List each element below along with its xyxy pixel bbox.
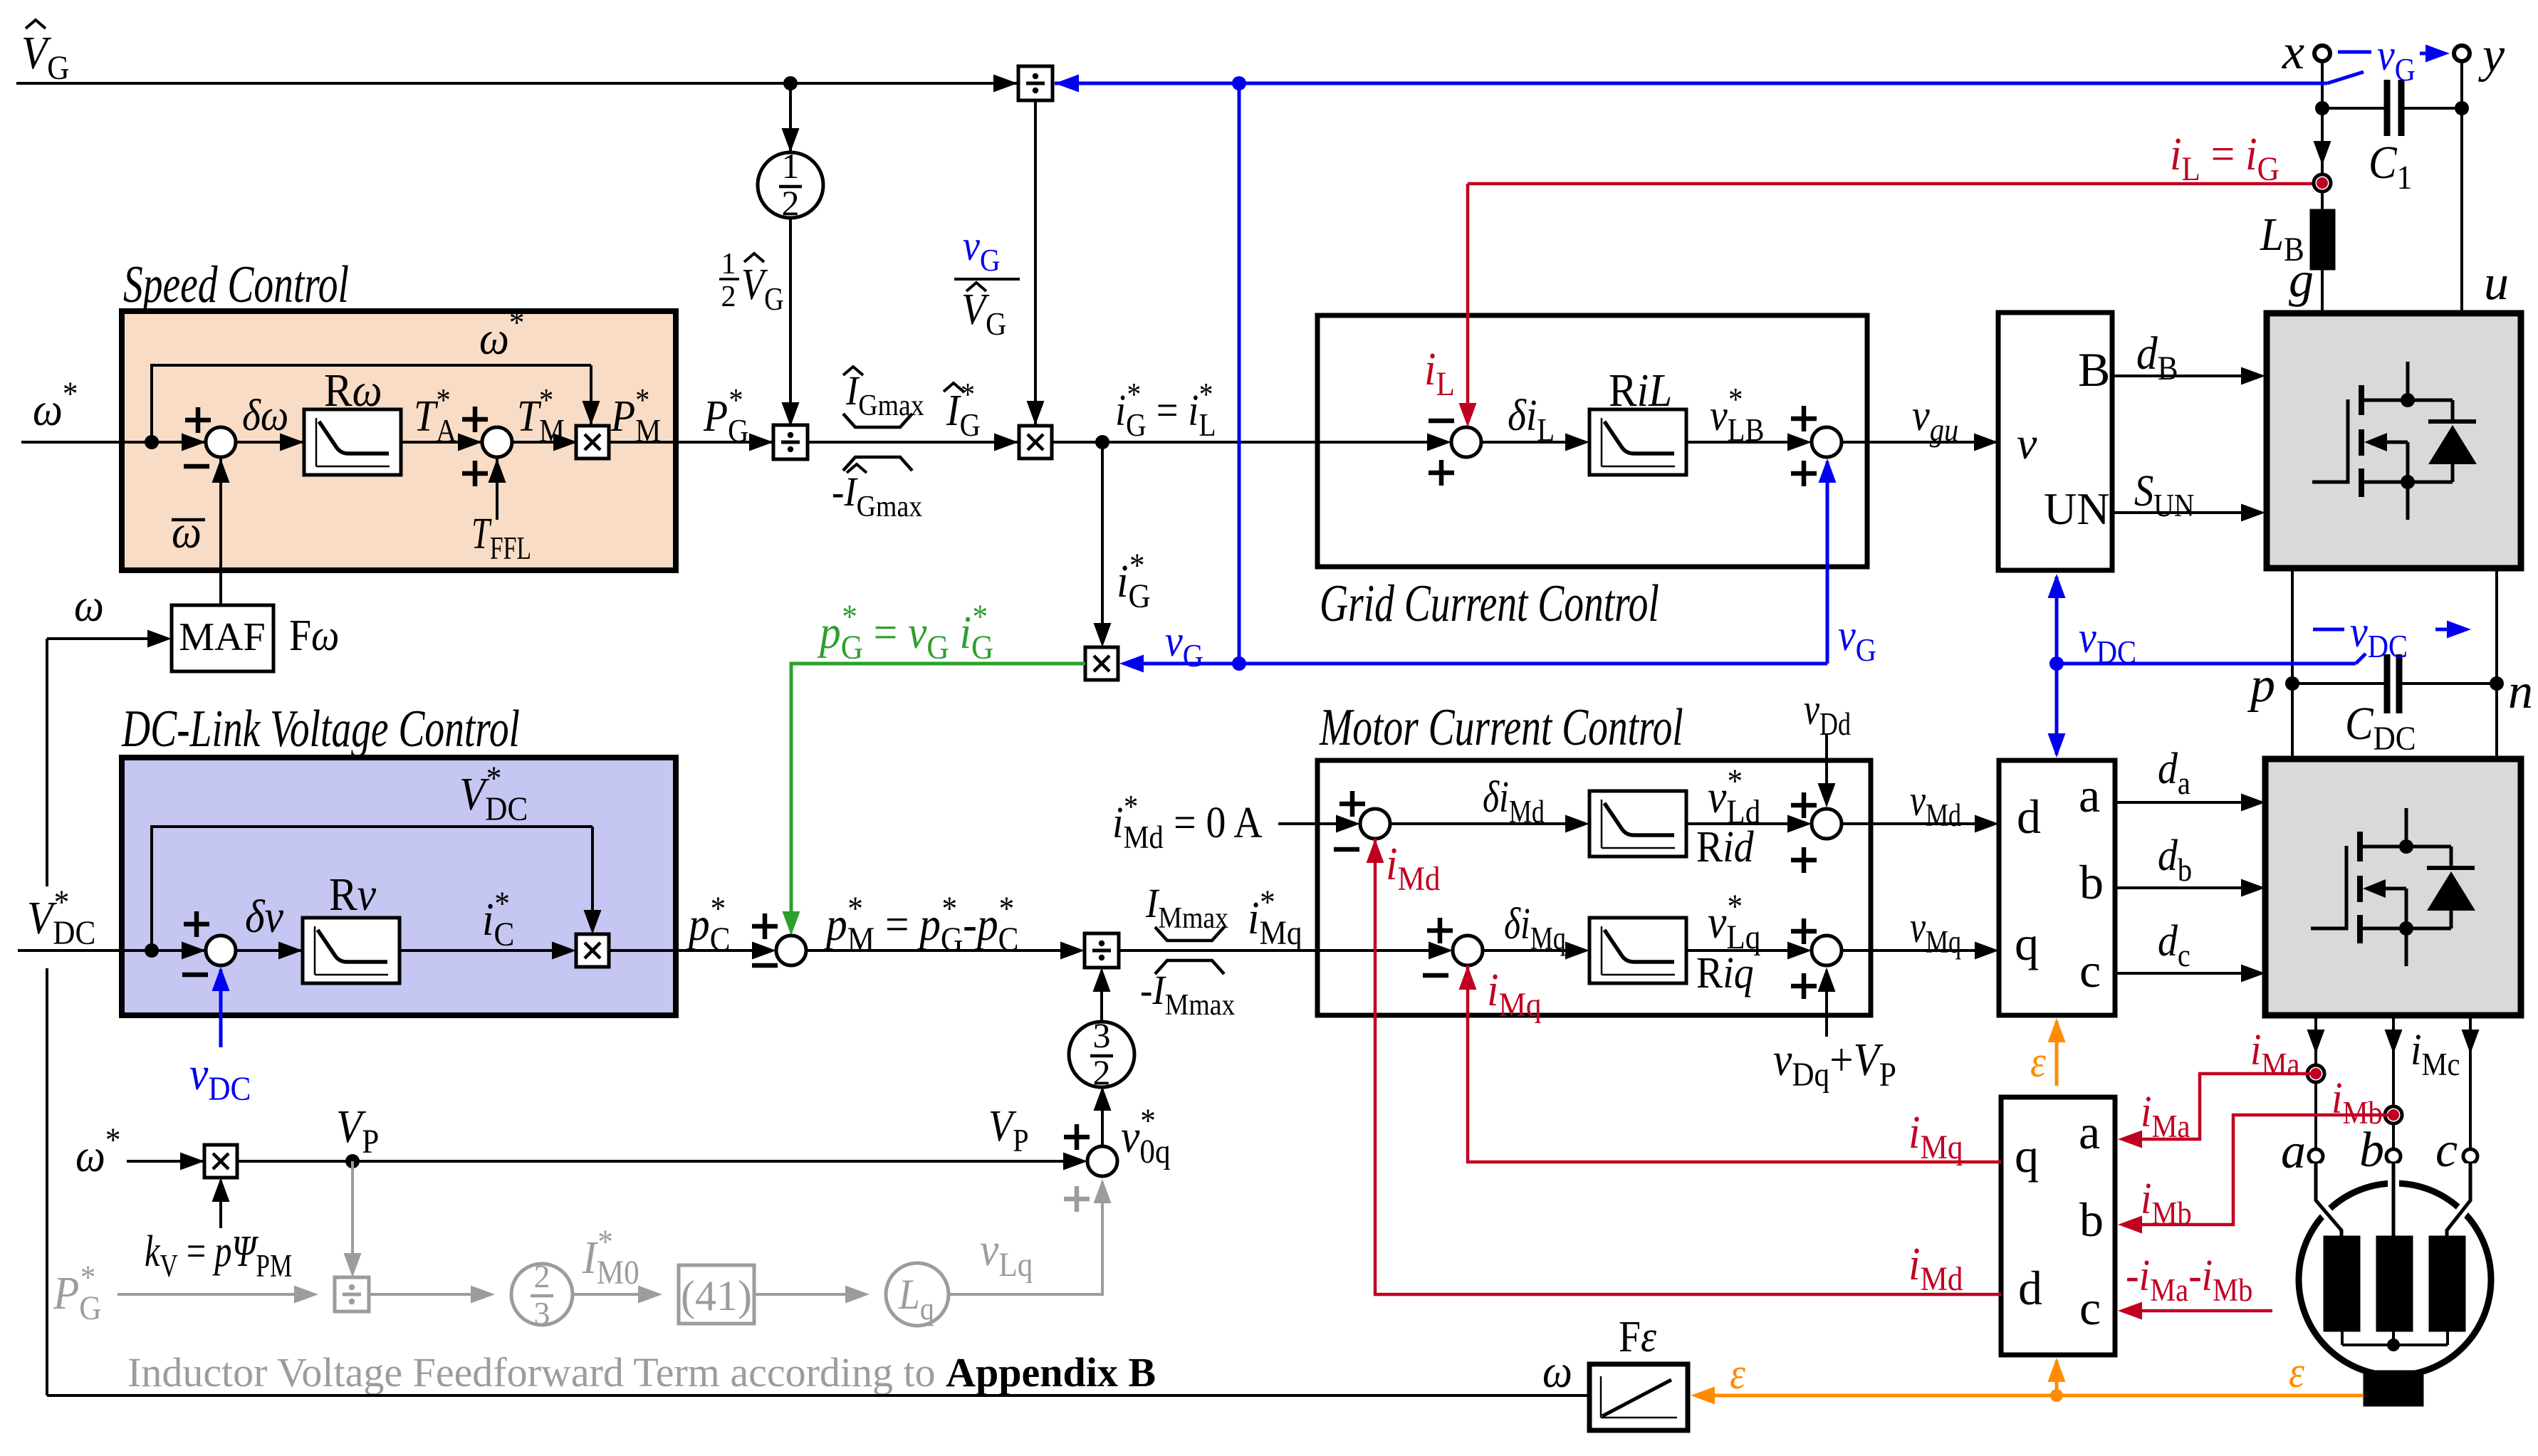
svg-text:Rω: Rω xyxy=(324,364,382,417)
svg-text:vDq+VP: vDq+VP xyxy=(1773,1033,1896,1093)
svg-text:y: y xyxy=(2478,28,2505,83)
svg-text:2: 2 xyxy=(534,1258,550,1294)
svg-text:d: d xyxy=(2017,790,2041,844)
svg-text:iG* = iL*: iG* = iL* xyxy=(1115,377,1216,444)
svg-text:b: b xyxy=(2079,855,2104,909)
svg-text:a: a xyxy=(2079,768,2100,822)
svg-text:c: c xyxy=(2435,1123,2458,1178)
svg-text:c: c xyxy=(2079,943,2101,997)
svg-text:Fω: Fω xyxy=(289,610,339,659)
svg-text:iC*: iC* xyxy=(482,884,514,953)
svg-text:b: b xyxy=(2079,1193,2104,1247)
svg-text:Motor Current Control: Motor Current Control xyxy=(1319,699,1683,757)
svg-text:DC-Link Voltage Control: DC-Link Voltage Control xyxy=(121,701,520,758)
svg-text:u: u xyxy=(2484,256,2509,310)
svg-text:g: g xyxy=(2289,253,2314,308)
svg-text:(41): (41) xyxy=(681,1272,752,1319)
svg-text:RiL: RiL xyxy=(1609,364,1672,417)
svg-text:2: 2 xyxy=(721,281,736,313)
svg-text:TA*: TA* xyxy=(414,383,456,449)
svg-text:pG* = vG iG*: pG* = vG iG* xyxy=(817,597,993,666)
svg-text:n: n xyxy=(2508,664,2533,719)
svg-text:2: 2 xyxy=(1093,1052,1111,1092)
svg-text:PG*: PG* xyxy=(703,383,748,449)
svg-text:δω: δω xyxy=(242,390,288,439)
svg-text:pC*: pC* xyxy=(686,889,730,958)
svg-text:MAF: MAF xyxy=(179,615,265,659)
svg-text:d: d xyxy=(2018,1261,2042,1315)
svg-text:3: 3 xyxy=(1093,1015,1111,1055)
svg-text:pM* = pG*-pC*: pM* = pG*-pC* xyxy=(823,889,1018,958)
svg-text:ω: ω xyxy=(1542,1345,1572,1398)
svg-text:x: x xyxy=(2282,25,2304,80)
svg-text:a: a xyxy=(2281,1124,2306,1179)
svg-text:B: B xyxy=(2078,342,2110,397)
svg-text:iMd* = 0 A: iMd* = 0 A xyxy=(1112,790,1263,855)
svg-text:Inductor Voltage Feedforward T: Inductor Voltage Feedforward Term accord… xyxy=(127,1349,1156,1395)
svg-text:a: a xyxy=(2079,1105,2100,1159)
svg-text:q: q xyxy=(2015,1128,2039,1183)
svg-text:UN: UN xyxy=(2044,483,2109,534)
svg-text:v: v xyxy=(2017,418,2037,468)
svg-text:3: 3 xyxy=(534,1295,550,1331)
svg-text:Fε: Fε xyxy=(1619,1311,1657,1361)
svg-text:1: 1 xyxy=(782,146,800,186)
svg-text:c: c xyxy=(2079,1281,2101,1335)
svg-text:Grid Current Control: Grid Current Control xyxy=(1320,575,1659,633)
svg-text:ω: ω xyxy=(74,579,104,632)
svg-text:2: 2 xyxy=(782,183,800,223)
svg-text:ε: ε xyxy=(1730,1348,1746,1398)
svg-text:p: p xyxy=(2247,658,2275,713)
svg-text:PG*: PG* xyxy=(53,1258,101,1327)
svg-text:ω: ω xyxy=(172,506,202,558)
svg-text:ε: ε xyxy=(2030,1037,2047,1086)
svg-text:1: 1 xyxy=(721,248,736,281)
svg-text:b: b xyxy=(2359,1123,2384,1178)
svg-text:Speed Control: Speed Control xyxy=(123,256,349,314)
svg-text:ε: ε xyxy=(2289,1347,2305,1396)
svg-text:q: q xyxy=(2015,916,2039,970)
svg-text:δv: δv xyxy=(245,890,283,943)
svg-text:Rv: Rv xyxy=(329,868,376,921)
